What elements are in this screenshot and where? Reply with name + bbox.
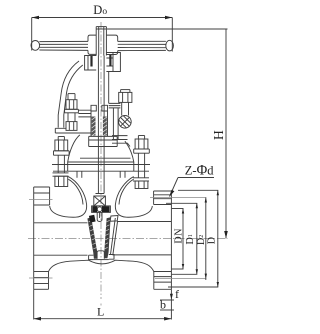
dimension D — [168, 190, 219, 287]
bonnet sides — [68, 135, 80, 171]
bore line bottom right — [113, 254, 172, 256]
flange left face — [33, 187, 35, 289]
wedge bottom line — [93, 259, 109, 261]
stem nut bracket left — [85, 56, 97, 71]
yoke foot left — [55, 128, 91, 133]
wedge nut box with X — [94, 196, 106, 206]
stuffing box walls — [91, 111, 108, 136]
body dome right — [115, 177, 152, 218]
bonnet neck right — [119, 172, 121, 178]
flange left top box — [34, 187, 50, 205]
svg-text:L: L — [97, 305, 104, 319]
bonnet bolt left — [53, 137, 70, 187]
handwheel left hub step — [88, 35, 96, 54]
yoke foot right — [112, 136, 130, 147]
dimension H — [107, 29, 228, 239]
dimension D2 — [0, 0, 1, 1]
wedge right hatch band — [104, 217, 110, 258]
wedge bottom tab — [97, 251, 104, 259]
flange right bottom box — [154, 272, 172, 290]
handwheel left bar — [39, 41, 88, 50]
flange right top box — [154, 191, 172, 205]
handwheel right knob — [166, 40, 174, 51]
centerline horizontal (pipe axis) — [28, 238, 228, 240]
handwheel left knob — [31, 41, 40, 51]
bolt centerlines left flange — [29, 199, 53, 201]
dimension f — [170, 294, 173, 300]
seat foot box left — [89, 255, 94, 259]
flange right face — [170, 191, 172, 289]
svg-text:H: H — [211, 130, 226, 140]
bore line bottom left — [34, 254, 88, 256]
yoke arm right — [108, 72, 110, 103]
svg-text:DN: DN — [174, 228, 185, 244]
packing hatch left — [92, 117, 96, 136]
bonnet neck left — [76, 172, 78, 178]
gland link right — [109, 103, 121, 108]
wedge T-slot band — [92, 206, 111, 213]
svg-text:D: D — [207, 237, 218, 244]
seat foot box right — [109, 255, 114, 260]
yoke arm left — [58, 61, 79, 128]
bonnet upper flare — [89, 136, 118, 146]
seat corner left — [89, 215, 96, 223]
stem rod — [97, 56, 99, 194]
svg-text:f: f — [175, 287, 179, 301]
body dome left — [50, 177, 87, 218]
dimension D1 — [166, 203, 198, 274]
bore line top right — [118, 221, 172, 223]
packing hatch right — [103, 117, 107, 136]
bonnet bolt right — [133, 136, 149, 189]
seat ring right outline — [111, 218, 116, 255]
dimension Do — [32, 3, 173, 52]
flange left bottom box — [34, 272, 49, 290]
bore line top left — [34, 222, 88, 224]
gland link left — [78, 110, 91, 117]
svg-text:b: b — [160, 298, 166, 312]
dimension b — [160, 309, 174, 311]
stem collar — [96, 194, 105, 197]
stem tip — [97, 212, 102, 221]
gland bolt right with eyebolt pin — [119, 90, 132, 116]
body bottom arch — [49, 260, 154, 271]
svg-text:Z-Φd: Z-Φd — [185, 163, 214, 179]
centerline vertical (valve axis) — [100, 22, 102, 299]
dimension DN — [172, 209, 184, 270]
dimension L — [34, 289, 172, 320]
gland follower — [91, 105, 108, 111]
eyebolt pin circle — [119, 116, 132, 129]
gland bolt left — [65, 94, 79, 131]
bonnet flange — [52, 158, 150, 171]
stem nut bracket right — [106, 53, 120, 72]
handwheel right hub step — [106, 35, 117, 54]
handwheel hub — [96, 27, 106, 56]
handwheel right bar — [118, 41, 166, 50]
wedge left hatch band — [87, 217, 97, 258]
seat corner right — [110, 216, 118, 222]
